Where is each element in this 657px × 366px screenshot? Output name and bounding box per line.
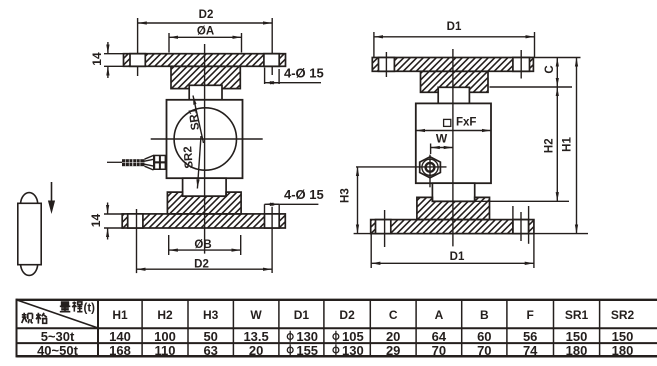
column lines: [97, 300, 99, 356]
bolt hole slot (right): [265, 214, 280, 228]
svg-text:D1: D1: [294, 308, 310, 322]
svg-text:SR1: SR1: [565, 308, 589, 322]
extension line bearing top / C,H2: [490, 86, 573, 88]
bolt hole (left): [379, 58, 395, 72]
load direction arrow: [48, 182, 55, 214]
svg-text:150: 150: [612, 329, 634, 344]
svg-text:14: 14: [89, 214, 103, 228]
bolt centerlines (bottom flange): [385, 206, 529, 247]
lower load button neck (right view): [432, 183, 474, 201]
svg-text:70: 70: [477, 343, 491, 358]
bolt hole slot (left): [130, 54, 145, 67]
dimension H2: [556, 87, 558, 201]
top load button neck (right view): [438, 87, 469, 103]
top flange plate (right view): [372, 58, 533, 72]
callout 4-Ø15 (top): [265, 68, 321, 85]
sphere circle: [174, 108, 236, 170]
dimension D1 (top): [374, 32, 535, 58]
lower hub boss: [167, 192, 241, 214]
svg-text:W: W: [436, 132, 448, 146]
svg-text:50: 50: [203, 329, 217, 344]
top hub boss: [171, 66, 240, 88]
svg-text:B: B: [480, 308, 489, 322]
table row 1: [41, 329, 634, 344]
dimension C: [556, 58, 558, 88]
svg-text:155: 155: [296, 343, 318, 358]
table top border: [17, 299, 657, 301]
svg-text:H3: H3: [203, 308, 219, 322]
dimension ØA: [169, 33, 242, 53]
table left border: [16, 299, 18, 358]
leader SR2: [197, 136, 201, 189]
svg-text:180: 180: [566, 343, 588, 358]
svg-text:C: C: [544, 65, 556, 73]
bolt hole slot (left): [128, 214, 143, 228]
svg-text:5~30t: 5~30t: [41, 329, 75, 344]
svg-text:H2: H2: [544, 138, 556, 153]
svg-text:4-Ø 15: 4-Ø 15: [284, 187, 324, 202]
svg-text:H3: H3: [339, 188, 351, 203]
dimension H1: [576, 58, 578, 234]
cable strain-relief taper: [145, 155, 154, 170]
svg-text:F: F: [527, 308, 534, 322]
bottom flange plate (right view): [371, 220, 534, 234]
svg-text:ØB: ØB: [194, 239, 211, 251]
header label 规格: [22, 313, 47, 324]
callout 4-Ø15 (bottom): [265, 204, 319, 213]
svg-text:168: 168: [109, 343, 131, 358]
svg-text:SR2: SR2: [182, 146, 196, 169]
dimension 14 (top-left): [104, 42, 124, 78]
bolt hole (left): [376, 220, 391, 234]
svg-text:105: 105: [342, 329, 364, 344]
svg-text:D1: D1: [447, 21, 462, 33]
dimension D2 (bottom): [137, 207, 273, 273]
svg-text:74: 74: [523, 343, 538, 358]
svg-text:FxF: FxF: [456, 117, 476, 129]
svg-text:W: W: [250, 308, 262, 322]
dimension 14 (bottom-left): [104, 203, 124, 240]
svg-text:130: 130: [342, 343, 364, 358]
bottom flange plate: [122, 214, 285, 228]
load pin capsule: [18, 193, 41, 276]
phi symbols: [287, 331, 338, 356]
vertical centerline: [204, 44, 206, 254]
svg-text:H1: H1: [112, 308, 128, 322]
header diagonal: [17, 300, 98, 328]
lower hub boss (right view): [417, 197, 490, 219]
svg-text:A: A: [435, 308, 444, 322]
body (right view): [416, 103, 491, 183]
cable wire: [107, 161, 122, 163]
svg-text:63: 63: [203, 343, 217, 358]
dimension D1 (bottom): [371, 234, 534, 268]
svg-text:H1: H1: [561, 137, 573, 152]
svg-text:13.5: 13.5: [243, 329, 268, 344]
table row separator: [17, 342, 657, 344]
extension line H2 bottom: [475, 200, 569, 202]
dimension W: [431, 144, 453, 155]
svg-text:56: 56: [523, 329, 537, 344]
svg-text:100: 100: [154, 329, 176, 344]
svg-text:ØA: ØA: [197, 25, 214, 37]
svg-text:180: 180: [612, 343, 634, 358]
FxF dimension arrows: [416, 130, 491, 132]
svg-text:D2: D2: [339, 308, 355, 322]
svg-text:(t): (t): [84, 303, 96, 315]
svg-text:SR2: SR2: [611, 308, 635, 322]
svg-text:130: 130: [296, 329, 318, 344]
extension line flange top / C,H1: [533, 57, 580, 59]
vertical centerline (right view): [452, 49, 454, 246]
cable sleeve: [122, 159, 145, 166]
header label 量程(t): [60, 302, 83, 312]
lower load button neck: [183, 178, 227, 196]
cable gland nut: [153, 155, 167, 170]
svg-text:H2: H2: [157, 308, 173, 322]
svg-text:110: 110: [155, 343, 176, 358]
horizontal centerline: [151, 138, 263, 140]
table row 2: [37, 343, 633, 358]
top load button neck: [189, 85, 222, 100]
nut centerlines / H3 extension: [356, 166, 447, 168]
FxF square symbol: [444, 119, 451, 126]
svg-text:40~50t: 40~50t: [37, 343, 79, 358]
svg-text:140: 140: [109, 329, 131, 344]
top flange plate (hatched section): [124, 54, 286, 67]
dimension ØB: [169, 235, 241, 255]
svg-text:150: 150: [566, 329, 588, 344]
svg-text:D1: D1: [450, 251, 465, 263]
svg-text:20: 20: [386, 329, 400, 344]
body (square block): [167, 100, 243, 178]
dimension H3: [354, 167, 380, 234]
bolt hole (right): [513, 220, 529, 234]
svg-text:4-Ø 15: 4-Ø 15: [284, 66, 324, 81]
bolt hole (right): [513, 58, 530, 72]
svg-text:14: 14: [90, 52, 104, 66]
svg-text:29: 29: [386, 343, 400, 358]
top hub boss (right view): [421, 71, 489, 92]
svg-text:D2: D2: [199, 9, 214, 21]
dimension D2 (top): [138, 18, 273, 76]
table bottom border: [17, 355, 657, 358]
table column headers: [112, 308, 634, 322]
extension line H1 bottom: [534, 233, 588, 235]
leader SR1: [193, 96, 204, 144]
svg-text:20: 20: [249, 343, 263, 358]
svg-text:C: C: [389, 308, 398, 322]
svg-text:70: 70: [432, 343, 446, 358]
svg-text:64: 64: [432, 329, 447, 344]
cable gland nut (front view): [420, 157, 441, 178]
bolt centerlines (top flange): [386, 50, 521, 79]
table header separator: [17, 327, 657, 329]
svg-text:60: 60: [477, 329, 491, 344]
bolt hole slot (right): [264, 54, 279, 67]
svg-text:D2: D2: [194, 259, 209, 271]
